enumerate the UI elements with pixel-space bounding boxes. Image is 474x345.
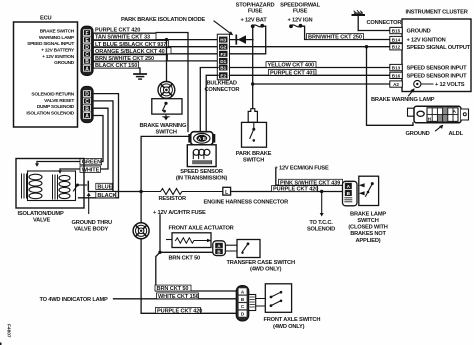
wire oval connector to valve-side vertical — [141, 136, 190, 222]
wire to TCC solenoid — [320, 192, 324, 217]
ECU pin text BRAKE SWITCH — [40, 29, 75, 35]
label PARK BRAKE ISOLATION DIODE — [121, 17, 205, 23]
svg-text:BLACK: BLACK — [97, 193, 116, 199]
wire BLACK CKT 150 (pin A to ground) — [93, 68, 140, 74]
label BRN CKT 50 (lower) — [155, 285, 191, 292]
svg-text:A2: A2 — [393, 82, 399, 87]
svg-text:ALDL: ALDL — [449, 131, 464, 137]
diode CR1 (park brake isolation diode) — [230, 35, 254, 44]
svg-text:ISOLATION/DUMP: ISOLATION/DUMP — [18, 211, 64, 217]
svg-text:BRN CKT 50: BRN CKT 50 — [169, 256, 201, 262]
svg-text:+ 12V IGNITION: + 12V IGNITION — [407, 38, 446, 44]
svg-text:C: C — [85, 99, 89, 105]
svg-text:PURPLE CKT 420: PURPLE CKT 420 — [273, 187, 318, 193]
svg-text:+ 12V ECM/IGN FUSE: + 12V ECM/IGN FUSE — [275, 166, 329, 172]
label ALDL — [449, 131, 464, 137]
wire solenoid B to WHITE — [60, 108, 108, 169]
svg-text:A: A — [85, 66, 89, 72]
wire solenoid D to BLACK — [79, 94, 119, 198]
svg-text:(IN TRANSMISSION): (IN TRANSMISSION) — [176, 175, 228, 181]
svg-text:SPEED SENSOR INPUT: SPEED SENSOR INPUT — [407, 66, 468, 72]
wire PURPLE CKT 420 (pin F, turns down) — [93, 33, 188, 132]
svg-text:CONNECTOR: CONNECTOR — [205, 87, 240, 93]
label GROUND (ALDL) — [406, 131, 430, 137]
svg-text:PURPLE CKT 420: PURPLE CKT 420 — [95, 28, 140, 34]
junction node TCC — [320, 190, 323, 193]
svg-text:PARK BRAKE: PARK BRAKE — [236, 151, 272, 157]
wire PURPLE CKT 420 engine harness to brake lamp switch B — [231, 191, 345, 193]
brake warning switch S2 box — [152, 99, 182, 114]
label BRN CKT 50 (upper) — [169, 256, 201, 262]
solenoid coil L2 (dump) — [53, 175, 71, 199]
svg-text:+ 12V IGN: + 12V IGN — [288, 17, 313, 23]
ECU pin text SPEED SIGNAL INPUT — [27, 41, 74, 47]
label BRN S/WHITE CKT 250 — [94, 55, 168, 62]
label PURPLE CKT 420 (bottom) — [156, 307, 203, 314]
cluster text 12V IGNITION — [407, 38, 446, 44]
wire LT BLUE S/BLACK CKT 937 (pin D to G2) — [93, 46, 218, 48]
wire speed sensor A to bulkhead B1 — [200, 68, 218, 132]
label ISOLATION/DUMP VALVE — [18, 211, 64, 224]
svg-text:BRAKE WARNING LAMP: BRAKE WARNING LAMP — [371, 97, 435, 103]
svg-text:FUSE: FUSE — [248, 8, 263, 14]
svg-text:ISOLATION SOLENOID: ISOLATION SOLENOID — [26, 110, 74, 116]
label GROUND THRU VALVE BODY — [72, 220, 113, 233]
figure number F4807 — [6, 324, 12, 338]
ground symbol (BLACK CKT 150) — [134, 74, 146, 79]
label SPEED SENSOR (IN TRANSMISSION) — [176, 169, 228, 182]
wire BRN CKT 50 to actuator connector — [160, 251, 213, 253]
svg-text:ECU: ECU — [40, 16, 52, 22]
svg-text:B: B — [203, 136, 206, 141]
fuse F2 speedo/rwal — [289, 24, 302, 28]
wire PURPLE CKT 420 to front axle switch D — [141, 312, 236, 314]
cluster text +12 VOLTS — [435, 82, 465, 88]
svg-text:LT BLUE S/BLACK CKT 937: LT BLUE S/BLACK CKT 937 — [95, 42, 166, 48]
svg-text:D: D — [85, 92, 89, 98]
svg-text:F2: F2 — [221, 52, 227, 57]
svg-text:GROUND: GROUND — [54, 60, 75, 66]
svg-text:B: B — [217, 249, 220, 254]
label PARK BRAKE SWITCH — [236, 151, 272, 164]
ECU pin text ISOLATION SOLENOID — [26, 110, 74, 116]
svg-text:(4WD ONLY): (4WD ONLY) — [273, 324, 305, 330]
svg-text:(4WD ONLY): (4WD ONLY) — [250, 267, 282, 273]
label ENGINE HARNESS CONNECTOR — [204, 200, 289, 206]
arrow white to coil2 — [58, 169, 62, 174]
svg-text:INSTRUMENT CLUSTER: INSTRUMENT CLUSTER — [406, 10, 468, 16]
svg-text:TRANSFER CASE SWITCH: TRANSFER CASE SWITCH — [227, 260, 295, 266]
pointer to brake warning lamp — [409, 88, 415, 96]
fuse F1 stop/hazard — [251, 24, 264, 28]
label WHITE CKT 156 — [157, 293, 199, 300]
junction node A2 feed — [251, 82, 254, 85]
stop/hazard fuse text — [236, 2, 275, 23]
label PURPLE CKT 420 — [94, 27, 156, 34]
svg-text:BRAKE LAMP: BRAKE LAMP — [350, 211, 386, 217]
label FRONT AXLE ACTUATOR — [169, 225, 234, 231]
svg-text:BLACK CKT 150: BLACK CKT 150 — [95, 63, 137, 69]
actuator A/B connector — [213, 241, 226, 256]
svg-text:+ 12V A/C/HTR FUSE: + 12V A/C/HTR FUSE — [153, 210, 206, 216]
svg-text:B14: B14 — [392, 38, 401, 43]
wire BLUE row — [89, 191, 142, 193]
speed sensor connector (oval A|B) — [188, 132, 215, 145]
label BRN/WHITE CKT 250 — [307, 34, 364, 41]
wires connector to transfer case switch — [225, 245, 237, 251]
svg-text:ENGINE HARNESS CONNECTOR: ENGINE HARNESS CONNECTOR — [204, 200, 289, 206]
12V A/C/HTR fuse feed — [153, 210, 206, 216]
wire PURPLE CKT 401 (E2 to B16) — [230, 74, 390, 76]
label TO T.C.C. SOLENOID — [307, 220, 335, 233]
svg-text:F: F — [85, 31, 88, 37]
svg-text:D1: D1 — [220, 59, 226, 64]
12V ECM/IGN fuse feed — [275, 166, 329, 172]
wire BRN chamfer down to front axle switch A — [156, 252, 237, 291]
svg-text:+ 12V BATTERY: + 12V BATTERY — [41, 48, 75, 54]
svg-text:SPEED SENSOR: SPEED SENSOR — [180, 169, 223, 175]
label INSTRUMENT CLUSTER — [406, 10, 468, 16]
svg-text:TO 4WD INDICATOR LAMP: TO 4WD INDICATOR LAMP — [40, 297, 109, 303]
wire speed sensor B to bulkhead E2 — [206, 75, 218, 131]
svg-text:BRAKE WARNING: BRAKE WARNING — [140, 123, 187, 129]
arrow green to coil1 — [35, 162, 39, 167]
brake warning lamp DS1 — [414, 80, 433, 87]
svg-text:BRAKES NOT: BRAKES NOT — [350, 231, 386, 237]
svg-text:B13: B13 — [392, 66, 401, 71]
label BRAKE LAMP SWITCH (CLOSED WITH BRAKES NOT APPLIED) — [348, 211, 387, 243]
svg-text:H: H — [428, 117, 431, 122]
wire down to brake warning switch — [166, 40, 168, 82]
svg-text:F4807: F4807 — [6, 324, 12, 338]
svg-text:L: L — [225, 190, 228, 196]
wire ground connector to B15 — [358, 30, 390, 32]
solenoid coil L1 (isolation) — [22, 174, 43, 199]
label TAN S/WHITE CKT 33 — [94, 34, 157, 41]
ground thru valve body arrow — [87, 193, 91, 214]
wire fuse to BRN junction — [159, 215, 161, 253]
ECU pin text GROUND — [54, 60, 75, 66]
4WD connector (circle) — [133, 223, 149, 239]
arrow to ALDL ground — [436, 125, 444, 131]
connector J2 (ECU pins D-A solenoids) — [81, 87, 93, 123]
svg-text:(CLOSED WITH: (CLOSED WITH — [348, 225, 387, 231]
cluster pin A2 — [390, 81, 403, 87]
wire fuse1 to park brake switch (main vertical) — [252, 27, 254, 109]
svg-text:A: A — [85, 114, 89, 120]
svg-text:GROUND: GROUND — [406, 131, 430, 137]
park brake switch connector — [248, 109, 257, 123]
label PINK S/WHITE CKT 439 — [279, 179, 343, 186]
svg-text:+ 12V IGNITION: + 12V IGNITION — [42, 54, 75, 60]
junction node resistor/valve — [139, 190, 142, 193]
wire junction to cluster A2 — [253, 83, 390, 85]
svg-text:B12: B12 — [392, 45, 401, 50]
svg-text:PURPLE CKT 401: PURPLE CKT 401 — [270, 70, 315, 76]
svg-text:BRAKE SWITCH: BRAKE SWITCH — [40, 29, 75, 35]
label BULKHEAD CONNECTOR — [205, 80, 240, 93]
svg-text:PARK BRAKE ISOLATION DIODE: PARK BRAKE ISOLATION DIODE — [121, 17, 205, 23]
svg-text:VALVE BODY: VALVE BODY — [74, 226, 109, 232]
inner coil box — [28, 171, 76, 201]
connector J1 (ECU pins F-A) — [81, 26, 93, 75]
isolation/dump valve box — [16, 159, 84, 209]
svg-text:APPLIED): APPLIED) — [356, 238, 381, 244]
svg-text:WHITE CKT 156: WHITE CKT 156 — [158, 294, 199, 300]
svg-text:BULKHEAD: BULKHEAD — [207, 80, 237, 86]
label YELLOW CKT 400 — [266, 62, 316, 69]
speedo/rwal fuse text — [280, 2, 320, 23]
cluster pin B13 — [390, 64, 403, 70]
ECU pin text +12V IGNITION — [42, 54, 75, 60]
wire 4WD connector down — [140, 239, 142, 313]
ECU pin text WARNING LAMP — [39, 35, 75, 41]
svg-text:B16: B16 — [392, 73, 401, 78]
label BLACK — [96, 192, 117, 199]
front axle switch connector — [236, 286, 248, 321]
svg-text:RESISTOR: RESISTOR — [159, 196, 186, 202]
svg-text:B15: B15 — [392, 29, 401, 34]
svg-text:G2: G2 — [220, 45, 227, 50]
label RESISTOR — [159, 196, 186, 202]
speed sensor G1 box — [187, 145, 216, 167]
ground symbol (connector to cluster B15) — [353, 11, 365, 31]
svg-text:SPEED SIGNAL INPUT: SPEED SIGNAL INPUT — [27, 41, 74, 47]
svg-text:B: B — [85, 106, 89, 112]
wire BRN S/WHITE CKT 250 (pin B to D1) — [93, 60, 218, 62]
wire 4WD lamp / WHITE CKT 156 to front axle switch B — [114, 298, 237, 300]
wire G2 to cluster B12 (speed signal) — [230, 46, 390, 48]
ECU pin text +12V BATTERY — [41, 48, 75, 54]
brake lamp switch S3 box — [359, 176, 379, 205]
svg-text:D: D — [85, 45, 89, 51]
wire fuse2 to cluster B14 (BRN/WHITE CKT 250) — [302, 26, 390, 39]
cluster pin B12 — [390, 44, 403, 50]
wire YELLOW CKT 400 (B1 to B13) — [230, 67, 390, 69]
svg-text:TO T.C.C.: TO T.C.C. — [309, 220, 333, 226]
label PURPLE CKT 401 — [269, 69, 317, 76]
svg-text:CONNECTOR: CONNECTOR — [367, 20, 402, 26]
svg-text:SWITCH: SWITCH — [357, 218, 378, 224]
svg-text:WARNING LAMP: WARNING LAMP — [39, 35, 75, 41]
svg-text:BRN S/WHITE CKT 250: BRN S/WHITE CKT 250 — [95, 56, 154, 62]
svg-text:+ 12V BAT: + 12V BAT — [240, 17, 267, 23]
svg-text:SPEED SIGNAL OUTPUT: SPEED SIGNAL OUTPUT — [407, 45, 471, 51]
park brake switch S1 box — [242, 122, 267, 147]
ECU pin text DUMP SOLENOID — [37, 104, 75, 110]
resistor R1 — [141, 189, 223, 195]
svg-text:PINK S/WHITE CKT 439: PINK S/WHITE CKT 439 — [280, 180, 340, 186]
bulkhead connector — [217, 34, 229, 80]
svg-text:SOLENOID: SOLENOID — [307, 227, 335, 233]
label TO 4WD INDICATOR LAMP — [40, 297, 109, 303]
front axle switch side block — [249, 295, 256, 311]
svg-text:A: A — [198, 136, 201, 141]
front axle switch S5 box — [265, 284, 291, 313]
svg-text:FRONT AXLE ACTUATOR: FRONT AXLE ACTUATOR — [169, 225, 234, 231]
svg-text:PURPLE CKT 420: PURPLE CKT 420 — [157, 308, 202, 314]
wire junction down to ALDL — [367, 47, 414, 126]
ECU U1 box — [14, 22, 78, 127]
engine harness connector L — [223, 187, 231, 196]
wires to front axle switch box — [256, 299, 266, 307]
front axle actuator box — [167, 233, 212, 248]
svg-text:DUMP SOLENOID: DUMP SOLENOID — [37, 104, 75, 110]
svg-text:SPEED SENSOR INPUT: SPEED SENSOR INPUT — [407, 73, 468, 79]
transfer case switch S4 box — [237, 240, 260, 258]
wire TAN S/WHITE CKT 33 (pin E to H3) — [93, 39, 218, 41]
cluster pin B16 — [390, 72, 403, 78]
cluster pin B15 — [390, 27, 403, 33]
svg-text:YELLOW CKT 400: YELLOW CKT 400 — [268, 63, 314, 69]
svg-text:H3: H3 — [220, 38, 226, 43]
svg-text:SWITCH: SWITCH — [156, 130, 177, 136]
wire solenoid C to BLUE — [93, 101, 113, 192]
label ORANGE S/BLACK CKT 40 — [94, 48, 172, 55]
cluster text SPEED SIGNAL OUTPUT — [407, 45, 471, 51]
label TRANSFER CASE SWITCH (4WD ONLY) — [227, 260, 295, 273]
junction node brake warning switch tap — [165, 38, 168, 41]
svg-text:B: B — [85, 59, 89, 65]
ECU pin text SOLENOID RETURN — [31, 92, 74, 98]
wire F2 to fuse1 right terminal — [230, 26, 266, 54]
label LT BLUE S/BLACK CKT 937 — [94, 41, 169, 48]
junction node BRN CKT 50 — [158, 251, 161, 254]
svg-text:SWITCH: SWITCH — [243, 157, 264, 163]
brake warning switch connector (circle) — [158, 82, 175, 99]
brake lamp switch connector — [343, 181, 358, 206]
svg-text:GROUND THRU: GROUND THRU — [72, 220, 113, 226]
corner mark — [0, 343, 2, 345]
wire PINK S/WHITE CKT 439 — [276, 168, 345, 185]
svg-text:BRN/WHITE CKT 250: BRN/WHITE CKT 250 — [308, 35, 362, 41]
cluster text GROUND — [407, 29, 431, 35]
svg-text:ORANGE S/BLACK CKT 40: ORANGE S/BLACK CKT 40 — [95, 49, 165, 55]
cluster text SPEED SENSOR INPUT (B16) — [407, 73, 468, 79]
label BRAKE WARNING LAMP — [371, 97, 435, 103]
label PURPLE CKT 420 (engine harness) — [272, 186, 319, 193]
pointer to diode — [214, 21, 233, 35]
svg-text:FRONT AXLE SWITCH: FRONT AXLE SWITCH — [264, 317, 321, 323]
junction node B12/ALDL — [365, 45, 368, 48]
label GREEN — [80, 158, 102, 165]
ECU label — [40, 16, 52, 22]
label WHITE — [80, 166, 101, 173]
svg-text:FUSE: FUSE — [293, 8, 308, 14]
instrument cluster box — [402, 19, 471, 92]
svg-text:VALVE: VALVE — [33, 218, 51, 224]
svg-text:+ 12 VOLTS: + 12 VOLTS — [435, 82, 465, 88]
svg-text:SOLENOID RETURN: SOLENOID RETURN — [31, 92, 74, 98]
valve contact switch — [74, 182, 89, 192]
label BLUE — [96, 183, 113, 190]
label CONNECTOR (top right) — [367, 20, 402, 26]
label BRAKE WARNING SWITCH — [140, 123, 187, 136]
svg-text:E2: E2 — [220, 73, 226, 78]
svg-text:BRN CKT 50: BRN CKT 50 — [157, 286, 189, 292]
svg-text:BLUE: BLUE — [97, 185, 112, 191]
label BLACK CKT 150 — [94, 62, 139, 69]
wire solenoid A to GREEN — [37, 116, 103, 162]
svg-text:VALVE RESET: VALVE RESET — [44, 98, 74, 104]
label FRONT AXLE SWITCH (4WD ONLY) — [264, 317, 321, 330]
svg-text:B1: B1 — [220, 66, 226, 71]
cluster pin B14 — [390, 36, 403, 42]
ECU pin text VALVE RESET — [44, 98, 74, 104]
cluster text SPEED SENSOR INPUT (B13) — [407, 66, 468, 72]
svg-text:C: C — [85, 52, 89, 58]
ground arrow below brake warning switch — [163, 114, 169, 120]
svg-text:GROUND: GROUND — [407, 29, 431, 35]
ALDL connector — [408, 106, 469, 123]
wire ORANGE S/BLACK CKT 40 (pin C to F2) — [93, 53, 218, 55]
svg-text:TAN S/WHITE CKT 33: TAN S/WHITE CKT 33 — [95, 35, 150, 41]
